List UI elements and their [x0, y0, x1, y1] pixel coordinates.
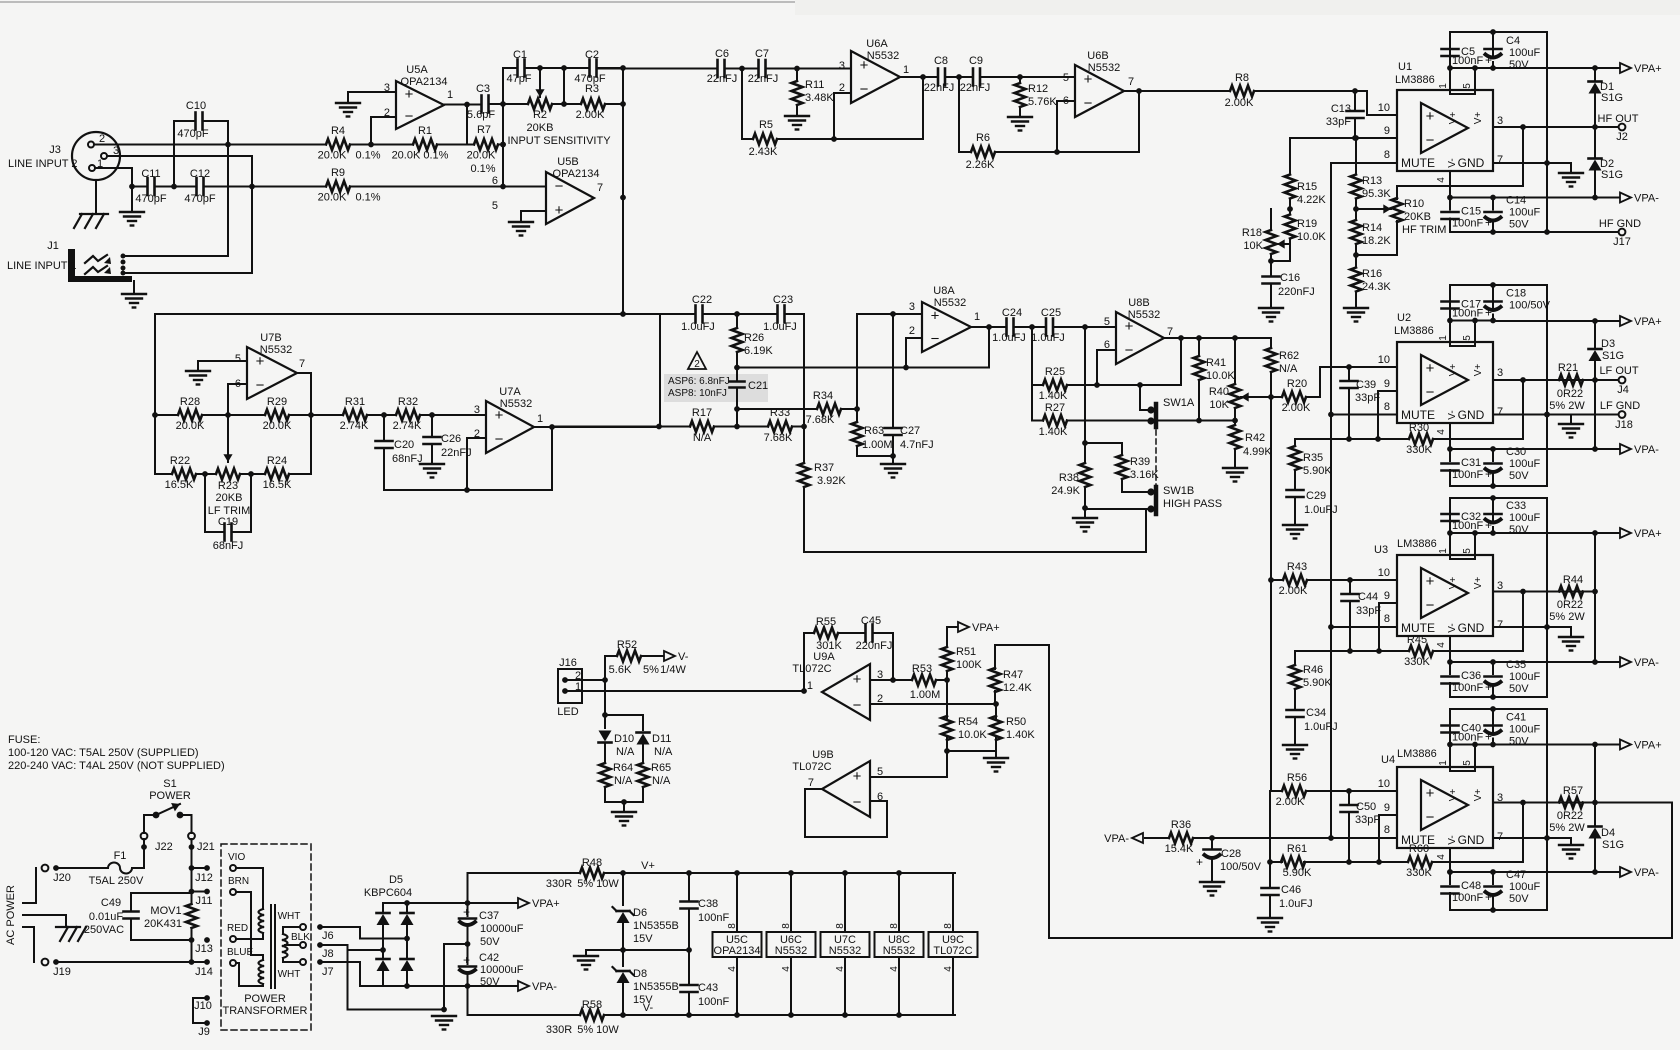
capacitor C24 1.0uFJ	[1005, 319, 1008, 336]
op-amp U9B TL072C	[822, 761, 870, 817]
svg-text:5: 5	[1063, 72, 1069, 84]
wire U2 GND pin7	[1493, 414, 1571, 416]
svg-text:INPUT SENSITIVITY: INPUT SENSITIVITY	[507, 135, 611, 147]
transformer dashed box	[221, 844, 311, 1030]
svg-text:R62: R62	[1279, 350, 1299, 362]
center tap ground	[444, 943, 468, 945]
svg-text:GND: GND	[1458, 621, 1485, 635]
wire U4 output pin3	[1493, 802, 1595, 804]
wire J7 to bridge negative	[323, 961, 360, 963]
svg-text:D4: D4	[1601, 827, 1615, 839]
svg-text:R54: R54	[958, 716, 978, 728]
connector J3 LINE INPUT 2	[72, 132, 120, 180]
svg-text:C28: C28	[1221, 848, 1241, 860]
svg-text:5% 2W: 5% 2W	[1549, 822, 1585, 834]
svg-text:U8B: U8B	[1128, 297, 1149, 309]
svg-text:100nF: 100nF	[1452, 55, 1483, 67]
wire VPA+ to U3 output	[1594, 533, 1596, 592]
terminal J22	[143, 839, 145, 868]
terminal J2 HF OUT	[1595, 126, 1618, 128]
svg-text:100nF: 100nF	[1452, 308, 1483, 320]
svg-text:R47: R47	[1003, 669, 1023, 681]
svg-text:100uF: 100uF	[1509, 724, 1540, 736]
svg-text:BLK: BLK	[291, 932, 310, 943]
svg-text:220-240 VAC: T4AL 250V (NOT SU: 220-240 VAC: T4AL 250V (NOT SUPPLIED)	[8, 760, 225, 772]
svg-text:C35: C35	[1506, 659, 1526, 671]
svg-text:VPA-: VPA-	[1634, 657, 1659, 669]
svg-text:10: 10	[1378, 102, 1390, 114]
svg-text:F1: F1	[114, 850, 127, 862]
op-amp U9A TL072C	[822, 664, 870, 720]
svg-text:J10: J10	[194, 1000, 212, 1012]
svg-text:+: +	[1485, 890, 1492, 904]
svg-text:U5B: U5B	[557, 156, 578, 168]
resistor R47 12.4K	[994, 645, 996, 669]
wire U9B pin5	[870, 776, 947, 778]
chassis ground under J3	[95, 180, 97, 214]
resistor R6 2.26K feedback	[958, 77, 960, 152]
primary coil 2	[236, 891, 251, 893]
svg-text:1: 1	[1438, 83, 1449, 89]
svg-text:C18: C18	[1506, 288, 1526, 300]
resistor R29 20.0K	[210, 414, 257, 416]
svg-text:J18: J18	[1615, 419, 1633, 431]
svg-text:R5: R5	[759, 119, 773, 131]
svg-text:R65: R65	[651, 762, 671, 774]
svg-text:C2: C2	[585, 49, 599, 61]
svg-text:V-: V-	[1447, 410, 1458, 419]
mid rail ground	[586, 949, 689, 951]
capacitor C49 0.01uF 250VAC	[131, 892, 192, 894]
svg-text:LF OUT: LF OUT	[1599, 365, 1638, 377]
wire U1 GND pin7	[1493, 162, 1571, 164]
svg-text:S1G: S1G	[1601, 169, 1623, 181]
svg-text:95.3K: 95.3K	[1362, 188, 1391, 200]
svg-text:R6: R6	[976, 132, 990, 144]
diode D2 S1G	[1594, 127, 1596, 158]
svg-text:R60: R60	[1409, 843, 1429, 855]
VPA+ flag U3	[1497, 532, 1620, 534]
svg-text:N/A: N/A	[1279, 363, 1298, 375]
svg-text:50V: 50V	[1509, 470, 1529, 482]
resistor R16 24.3K	[1351, 268, 1362, 292]
wire U3 pin8	[1331, 626, 1397, 628]
svg-text:D5: D5	[389, 874, 403, 886]
svg-text:24.9K: 24.9K	[1051, 485, 1080, 497]
potentiometer R2 20KB INPUT SENSITIVITY	[528, 99, 552, 110]
svg-text:50V: 50V	[480, 976, 500, 988]
svg-text:50V: 50V	[1509, 219, 1529, 231]
svg-text:C8: C8	[934, 55, 948, 67]
diode D4 S1G	[1594, 803, 1596, 827]
svg-text:C27: C27	[900, 425, 920, 437]
ground under C26	[420, 463, 444, 465]
resistor R37 3.92K	[803, 427, 805, 464]
capacitor C11 470pF	[129, 184, 135, 190]
ground at U2 pin7	[1570, 415, 1572, 425]
svg-text:−: −	[495, 431, 504, 448]
svg-text:100uF: 100uF	[1509, 458, 1540, 470]
svg-text:2.00K: 2.00K	[1276, 796, 1305, 808]
svg-text:4: 4	[835, 966, 846, 972]
wire U4 GND pin7	[1493, 837, 1571, 839]
ground under C34	[1283, 744, 1307, 746]
wire U2 pin8	[1331, 414, 1397, 416]
svg-text:4.7nFJ: 4.7nFJ	[900, 439, 934, 451]
svg-text:1.0uFJ: 1.0uFJ	[681, 321, 715, 333]
resistor R1 20.0K 0.1%	[413, 139, 437, 150]
wire U3 pin4	[1449, 636, 1451, 662]
right rail vertical U3	[1546, 498, 1548, 697]
svg-text:R9: R9	[331, 167, 345, 179]
wire U5B output to LF feed	[620, 195, 626, 201]
svg-text:R45: R45	[1407, 634, 1427, 646]
svg-text:R10: R10	[1404, 198, 1424, 210]
primary coil 1	[236, 867, 263, 869]
svg-text:301K: 301K	[816, 640, 842, 652]
svg-text:FUSE:: FUSE:	[8, 734, 40, 746]
svg-text:R8: R8	[1235, 72, 1249, 84]
right rail vertical U1	[1546, 32, 1548, 232]
svg-text:0.1%: 0.1%	[470, 163, 495, 175]
svg-text:100/50V: 100/50V	[1220, 861, 1262, 873]
svg-text:+: +	[1485, 216, 1492, 230]
wire U4 pin8 MUTE line	[1212, 837, 1397, 839]
svg-text:0R22: 0R22	[1557, 388, 1583, 400]
svg-text:1.40K: 1.40K	[1039, 390, 1068, 402]
svg-text:S1G: S1G	[1601, 92, 1623, 104]
svg-text:10K: 10K	[1209, 399, 1229, 411]
resistor R65 N/A	[638, 763, 649, 787]
wire U9A output node	[801, 688, 807, 694]
resistor R14 18.2K	[1351, 220, 1362, 244]
connector J12	[189, 865, 195, 871]
wire U9A pin2 line	[870, 703, 996, 705]
svg-text:10.0K: 10.0K	[1297, 231, 1326, 243]
svg-text:U1: U1	[1398, 61, 1412, 73]
svg-text:4.22K: 4.22K	[1297, 194, 1326, 206]
svg-text:18.2K: 18.2K	[1362, 235, 1391, 247]
svg-text:VPA+: VPA+	[972, 622, 1000, 634]
resistor R28 20.0K	[152, 412, 158, 418]
svg-text:U7B: U7B	[260, 332, 281, 344]
svg-text:R19: R19	[1297, 218, 1317, 230]
resistor R7 20.0K 0.1%	[474, 139, 498, 150]
svg-text:C19: C19	[218, 516, 238, 528]
svg-text:8: 8	[1384, 401, 1390, 413]
svg-text:5.76K: 5.76K	[1028, 96, 1057, 108]
svg-text:5: 5	[492, 200, 498, 212]
svg-text:−: −	[1426, 809, 1435, 826]
svg-text:S1: S1	[163, 778, 176, 790]
power amp U4 LM3886	[1397, 767, 1493, 848]
svg-text:33pF: 33pF	[1326, 116, 1351, 128]
svg-text:S1G: S1G	[1602, 839, 1624, 851]
svg-text:V+: V+	[1448, 364, 1459, 377]
svg-text:5% 10W: 5% 10W	[577, 1024, 619, 1036]
svg-text:SW1B: SW1B	[1163, 485, 1194, 497]
wire U1 pin4	[1449, 171, 1451, 196]
svg-text:+: +	[1485, 730, 1492, 744]
wire U9A pin3	[870, 679, 912, 681]
svg-text:R34: R34	[813, 390, 833, 402]
svg-text:N5532: N5532	[934, 297, 966, 309]
diode D1 S1G	[1594, 68, 1596, 81]
svg-text:LINE INPUT 2: LINE INPUT 2	[8, 158, 78, 170]
resistor R44 0R22 5% 2W	[1559, 586, 1583, 597]
resistor R19 10.0K	[1285, 215, 1296, 239]
capacitor C34 1.0uFJ	[1287, 709, 1304, 712]
terminal J20	[42, 865, 49, 872]
svg-text:C13: C13	[1331, 103, 1351, 115]
svg-text:C39: C39	[1356, 379, 1376, 391]
svg-text:3: 3	[839, 60, 845, 72]
svg-text:C7: C7	[755, 48, 769, 60]
resistor R52 5.6K 5% 1/4W	[605, 655, 617, 657]
svg-text:1.0uFJ: 1.0uFJ	[1031, 332, 1065, 344]
output sense loop to R47	[1595, 802, 1672, 804]
resistor R17 N/A	[552, 426, 685, 428]
svg-text:C24: C24	[1002, 307, 1022, 319]
svg-text:SW1A: SW1A	[1163, 397, 1195, 409]
svg-text:2.00K: 2.00K	[1225, 97, 1254, 109]
svg-text:5: 5	[1462, 335, 1473, 341]
svg-text:20.0K: 20.0K	[263, 420, 292, 432]
VPA- flag left	[1145, 837, 1169, 839]
svg-text:J14: J14	[195, 966, 213, 978]
svg-text:9: 9	[1384, 378, 1390, 390]
op-amp U5A OPA2134	[396, 81, 444, 129]
op-amp U8A N5532	[922, 302, 971, 352]
svg-text:10.0K: 10.0K	[958, 729, 987, 741]
wire SW1B common to R37 high pass line	[1145, 509, 1147, 552]
svg-text:U5A: U5A	[406, 64, 428, 76]
svg-text:R38: R38	[1059, 472, 1079, 484]
svg-text:33pF: 33pF	[1355, 392, 1380, 404]
svg-text:J13: J13	[195, 943, 213, 955]
svg-text:100uF: 100uF	[1509, 881, 1540, 893]
svg-text:22nFJ: 22nFJ	[707, 73, 738, 85]
svg-text:R37: R37	[814, 462, 834, 474]
svg-text:100nF: 100nF	[698, 996, 729, 1008]
resistor R20 2.00K	[1262, 396, 1271, 398]
svg-text:U3: U3	[1374, 544, 1388, 556]
svg-text:−: −	[853, 697, 862, 714]
svg-text:6.19K: 6.19K	[744, 345, 773, 357]
svg-text:C42: C42	[479, 952, 499, 964]
svg-text:C10: C10	[186, 100, 206, 112]
svg-text:3: 3	[909, 301, 915, 313]
svg-text:470pF: 470pF	[184, 193, 215, 205]
svg-text:5.6pF: 5.6pF	[467, 109, 495, 121]
ground under D10/D11	[605, 801, 643, 803]
svg-text:C29: C29	[1306, 490, 1326, 502]
svg-text:V+: V+	[1448, 577, 1459, 590]
fuse F1 T5AL 250V	[59, 867, 108, 869]
svg-text:R4: R4	[331, 125, 345, 137]
svg-text:V+: V+	[1473, 577, 1484, 590]
right rail vertical U4	[1546, 709, 1548, 910]
resistor R38 24.9K	[1084, 327, 1086, 443]
connector J11	[191, 868, 193, 892]
svg-text:U2: U2	[1397, 312, 1411, 324]
svg-text:−: −	[860, 81, 869, 98]
wire D3 node to VPA- rail	[1594, 380, 1596, 449]
resistor R57 0R22 5% 2W	[1559, 797, 1583, 808]
svg-text:4: 4	[1436, 854, 1447, 860]
wire U8A pin2	[906, 337, 922, 339]
svg-text:GND: GND	[1458, 156, 1485, 170]
svg-text:N5532: N5532	[1088, 62, 1120, 74]
svg-text:5.6K: 5.6K	[609, 664, 632, 676]
wire U7B pin5 ground	[198, 360, 247, 362]
svg-text:+: +	[1426, 360, 1435, 377]
capacitor C3 5.6pF	[480, 96, 483, 113]
svg-text:J17: J17	[1613, 236, 1631, 248]
svg-text:+: +	[1485, 680, 1492, 694]
wire U4 pin4	[1449, 848, 1451, 872]
svg-text:U6A: U6A	[866, 38, 888, 50]
wire U4 pin9	[1379, 814, 1397, 816]
svg-text:10000uF: 10000uF	[480, 923, 524, 935]
wire J8 to ground node	[323, 944, 348, 946]
svg-text:+: +	[463, 953, 470, 967]
svg-text:N/A: N/A	[616, 746, 635, 758]
svg-text:TL072C: TL072C	[933, 945, 972, 957]
svg-text:J1: J1	[47, 240, 59, 252]
svg-text:8: 8	[1384, 824, 1390, 836]
svg-text:C46: C46	[1281, 884, 1301, 896]
svg-text:20.0K: 20.0K	[176, 420, 205, 432]
svg-text:10: 10	[1378, 354, 1390, 366]
svg-text:330R: 330R	[546, 878, 572, 890]
capacitor C28 100/50V	[1211, 838, 1213, 849]
svg-text:4.99K: 4.99K	[1243, 446, 1272, 458]
VPA+ rail from bridge	[407, 902, 517, 904]
V- flag	[641, 655, 663, 657]
capacitor C19 68nFJ	[204, 474, 206, 532]
svg-text:MOV1: MOV1	[150, 905, 181, 917]
svg-text:N/A: N/A	[614, 775, 633, 787]
svg-text:D10: D10	[614, 733, 634, 745]
svg-text:V+: V+	[1473, 789, 1484, 802]
wire U5A pin3 ground	[348, 91, 396, 93]
svg-text:33pF: 33pF	[1355, 814, 1380, 826]
op-amp U5B OPA2134	[546, 172, 594, 224]
resistor R58 330R 5% 10W	[467, 986, 469, 1015]
svg-text:R41: R41	[1206, 357, 1226, 369]
page top scan line	[0, 1, 795, 3]
svg-text:5% 2W: 5% 2W	[1549, 400, 1585, 412]
ground under C11 node	[131, 187, 133, 213]
op-amp U6B N5532	[1075, 65, 1124, 117]
resistor R34 7.68K	[737, 408, 817, 410]
svg-text:HF OUT: HF OUT	[1598, 113, 1639, 125]
svg-text:100uF: 100uF	[1509, 671, 1540, 683]
connector J13	[131, 939, 192, 941]
op-amp U7B N5532	[247, 347, 297, 399]
svg-text:R16: R16	[1362, 268, 1382, 280]
wire U8A output	[971, 326, 1006, 328]
svg-text:LM3886: LM3886	[1395, 74, 1435, 86]
svg-text:VPA+: VPA+	[532, 898, 560, 910]
svg-text:5.90K: 5.90K	[1303, 465, 1332, 477]
svg-text:MUTE: MUTE	[1401, 621, 1435, 635]
svg-text:8: 8	[1384, 149, 1390, 161]
resistor R24 16.5K	[265, 469, 289, 480]
svg-text:R23: R23	[218, 480, 238, 492]
svg-text:C25: C25	[1041, 307, 1061, 319]
svg-text:0R22: 0R22	[1557, 810, 1583, 822]
ground under C27	[892, 456, 894, 464]
secondary center tap BLK	[285, 944, 300, 946]
V+ rail	[623, 872, 955, 874]
svg-text:330K: 330K	[1406, 867, 1432, 879]
svg-text:68nFJ: 68nFJ	[392, 453, 423, 465]
svg-text:22nFJ: 22nFJ	[748, 73, 779, 85]
svg-text:20.0K: 20.0K	[467, 150, 496, 162]
svg-text:V+: V+	[641, 860, 655, 872]
svg-text:GND: GND	[1458, 833, 1485, 847]
svg-text:+: +	[853, 768, 862, 785]
resistor R30 330K	[1295, 438, 1409, 440]
svg-text:4: 4	[1436, 429, 1447, 435]
svg-text:10: 10	[1378, 778, 1390, 790]
ground under C16	[1259, 307, 1283, 309]
svg-text:C47: C47	[1506, 869, 1526, 881]
svg-text:−: −	[256, 377, 265, 394]
V+ feed from VPA+	[467, 873, 469, 903]
op-amp supply pins U7C	[821, 932, 870, 957]
svg-text:4: 4	[1436, 177, 1447, 183]
jumper J10 J9	[204, 995, 210, 1001]
VPA+ flag at R51	[947, 626, 957, 628]
svg-text:2.00K: 2.00K	[1282, 402, 1311, 414]
svg-text:R28: R28	[180, 396, 200, 408]
svg-text:J11: J11	[196, 895, 213, 907]
svg-text:1.40K: 1.40K	[1006, 729, 1035, 741]
svg-text:1.0uFJ: 1.0uFJ	[1304, 504, 1338, 516]
svg-text:4: 4	[1436, 642, 1447, 648]
svg-text:R40: R40	[1209, 386, 1229, 398]
svg-text:GND: GND	[1458, 408, 1485, 422]
svg-text:R61: R61	[1287, 843, 1307, 855]
svg-text:R12: R12	[1028, 83, 1048, 95]
wire XLR pin3 down to J1	[107, 155, 252, 157]
svg-text:ASP8: 10nFJ: ASP8: 10nFJ	[668, 388, 727, 399]
capacitor C35 100uF 50V	[1450, 696, 1547, 698]
svg-text:3: 3	[1497, 115, 1503, 127]
svg-text:U9B: U9B	[812, 749, 833, 761]
svg-text:220nFJ: 220nFJ	[856, 640, 893, 652]
svg-text:5: 5	[235, 353, 241, 365]
zener D8 1N5355B 15V	[622, 950, 624, 966]
svg-text:10.0K: 10.0K	[1206, 370, 1235, 382]
svg-text:7.68K: 7.68K	[764, 432, 793, 444]
svg-text:T5AL 250V: T5AL 250V	[89, 875, 144, 887]
svg-text:POWER: POWER	[244, 993, 286, 1005]
ground under J1	[133, 281, 135, 294]
svg-text:R1: R1	[418, 125, 432, 137]
svg-text:R13: R13	[1362, 175, 1382, 187]
resistor R35 5.90K	[1294, 439, 1296, 446]
capacitor C43 100nF	[688, 950, 690, 985]
resistor R48 330R 5% 10W	[468, 872, 581, 874]
resistor R13 95.3K	[1355, 138, 1357, 169]
svg-text:R3: R3	[585, 83, 599, 95]
resistor R22 16.5K	[155, 473, 166, 475]
svg-text:100uF: 100uF	[1509, 512, 1540, 524]
